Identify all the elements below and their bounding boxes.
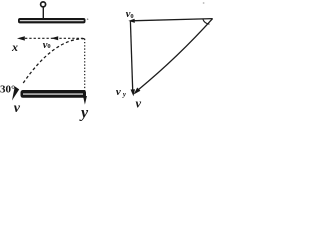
svg-text:x: x — [11, 40, 18, 54]
svg-text:30°: 30° — [0, 84, 15, 96]
svg-text:v: v — [136, 96, 142, 110]
svg-text:0: 0 — [47, 43, 50, 50]
svg-text:v: v — [116, 86, 121, 98]
svg-text:y: y — [79, 105, 89, 122]
svg-text:y: y — [122, 91, 127, 99]
svg-text:v: v — [14, 101, 21, 116]
svg-text:0: 0 — [130, 13, 133, 20]
